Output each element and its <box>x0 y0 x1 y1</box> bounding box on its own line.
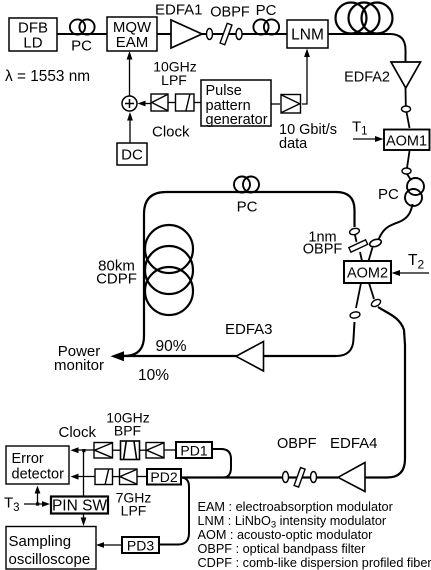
junction dot (clock tap) <box>82 449 85 452</box>
wire from AOM2 output down to EDFA4 line <box>365 307 405 478</box>
scope Sampling oscilloscope <box>6 527 96 570</box>
svg-text:oscilloscope: oscilloscope <box>9 551 91 568</box>
row2 arrow into error detector <box>71 474 96 480</box>
svg-text:EDFA3: EDFA3 <box>225 321 273 338</box>
svg-text:PD3: PD3 <box>127 538 154 554</box>
amplifier EDFA4 (left) <box>338 463 365 492</box>
arrow up to error detector <box>35 486 41 505</box>
wire <box>355 235 357 242</box>
arrow T2 to AOM2 <box>392 270 430 276</box>
adder circle-plus <box>122 96 137 111</box>
filter 10GHz BPF box <box>121 441 140 460</box>
wire PPG to driver <box>271 103 280 105</box>
wire: EDFA2 to AOM1 <box>405 88 407 106</box>
svg-text:PD2: PD2 <box>150 469 177 485</box>
label 10GHz LPF <box>153 59 197 89</box>
modulator LNM <box>287 20 328 48</box>
photodiode PD2 <box>147 469 181 485</box>
loop left wire <box>143 214 145 336</box>
polarization controller PC (before LNM) <box>253 19 279 34</box>
arrow PD3 to oscilloscope <box>96 542 122 548</box>
amplifier EDFA3 (left) <box>236 342 264 372</box>
svg-text:BPF: BPF <box>114 423 141 439</box>
connector ellipse <box>311 472 317 483</box>
svg-text:90%: 90% <box>156 338 187 355</box>
svg-text:Clock: Clock <box>59 424 97 441</box>
svg-text:Sampling: Sampling <box>9 533 72 550</box>
wire to PD1 <box>164 449 176 451</box>
label Power monitor <box>54 343 104 374</box>
svg-text:CDPF : comb-like dispersion pr: CDPF : comb-like dispersion profiled fib… <box>198 556 431 570</box>
connector ellipse <box>236 29 242 40</box>
clock path: mixer to adder arrow <box>138 101 152 107</box>
connector ellipse <box>402 106 411 112</box>
amp box row1 (left triangle) <box>94 443 113 459</box>
svg-text:DC: DC <box>121 147 143 164</box>
polarization controller PC (after DFB) <box>70 19 95 34</box>
connector ellipse <box>349 311 360 319</box>
wire clock down to PIN SW <box>83 450 85 497</box>
loop corner bottom-left (90/10 coupler) <box>124 336 144 356</box>
svg-text:LPF: LPF <box>161 72 187 88</box>
amplifier EDFA2 (down) <box>391 62 421 88</box>
svg-text:PIN SW: PIN SW <box>52 498 107 515</box>
amp box row2 (left triangle) <box>120 469 138 485</box>
amplifier EDFA1 <box>171 20 202 48</box>
modulator AOM1 <box>384 130 430 151</box>
label 7GHz LPF <box>116 490 152 519</box>
svg-text:data: data <box>279 136 308 152</box>
filter OBPF slab <box>220 23 232 44</box>
detector Error detector box <box>6 446 69 484</box>
photodiode PD3 <box>122 537 159 554</box>
svg-text:10%: 10% <box>138 367 169 384</box>
wire below AOM1 <box>407 151 410 168</box>
wire T3 to PIN SW with arrow <box>24 501 50 507</box>
switch PIN SW <box>51 497 108 515</box>
svg-text:generator: generator <box>206 112 268 128</box>
connector ellipse <box>283 472 289 483</box>
svg-text:EDFA4: EDFA4 <box>330 435 378 452</box>
wire loop top-right corner down to OBPF <box>336 192 355 227</box>
source DC box <box>117 143 147 165</box>
connector ellipse <box>370 298 382 308</box>
svg-text:OBPF: OBPF <box>303 242 343 258</box>
svg-text:LPF: LPF <box>121 503 147 519</box>
label 10GHz BPF <box>106 410 150 439</box>
svg-text:PC: PC <box>71 38 92 55</box>
svg-text:EAM: EAM <box>116 34 149 51</box>
wire BPF to amp2 <box>140 449 147 451</box>
svg-text:detector: detector <box>12 467 65 483</box>
modulator AOM2 <box>344 261 391 283</box>
fiber coil 80km CDPF <box>145 225 193 315</box>
loop corner bottom-right going up <box>336 322 355 356</box>
svg-text:PC: PC <box>256 2 277 19</box>
filter 10GHz LPF box <box>176 94 195 111</box>
wire AOM2 bottom-right to ellipse <box>369 283 374 299</box>
branch wire to PD3 <box>159 478 189 545</box>
wire: DFB LD to MQW EAM <box>57 33 107 35</box>
wire: MQW EAM to LNM main line <box>157 33 287 35</box>
wire LPF2 to amp3 <box>113 476 120 478</box>
wire to PD2 <box>137 476 147 478</box>
polarization controller PC (vertical pair) <box>405 178 424 206</box>
svg-text:LNM: LNM <box>291 27 324 44</box>
wire amp to LPF <box>168 102 176 104</box>
polarization controller PC (loop top) <box>234 177 259 193</box>
arrow PIN SW to sampling oscilloscope <box>81 514 87 527</box>
svg-text:CDPF: CDPF <box>96 271 137 288</box>
branch wire to PD1 <box>212 449 231 478</box>
amp box row1 second (left triangle) <box>146 443 164 459</box>
filter OBPF slab (detection) <box>294 468 305 487</box>
svg-text:AOM1: AOM1 <box>386 134 427 150</box>
row1 arrow into error detector <box>71 447 95 453</box>
svg-text:AOM : acousto-optic modulator: AOM : acousto-optic modulator <box>198 528 374 542</box>
junction dot <box>36 502 39 505</box>
svg-text:OBPF: OBPF <box>277 436 317 452</box>
svg-text:Error: Error <box>12 451 44 467</box>
loop bottom wire <box>115 355 336 357</box>
wire: LNM to fiber coil and down to EDFA2 <box>328 34 406 63</box>
fiber coil (3 loops) <box>336 3 393 34</box>
laser DFB LD <box>9 18 57 52</box>
connector ellipse <box>207 29 213 40</box>
svg-text:EDFA1: EDFA1 <box>155 2 203 19</box>
svg-text:PC: PC <box>237 199 258 216</box>
wire into AOM2 top-left <box>360 252 362 261</box>
svg-text:monitor: monitor <box>54 357 104 374</box>
arrow T1 to AOM1 <box>353 136 384 142</box>
svg-text:Clock: Clock <box>152 124 190 141</box>
svg-text:OBPF: OBPF <box>210 5 250 21</box>
svg-text:λ = 1553 nm: λ = 1553 nm <box>5 68 90 85</box>
photodiode PD1 <box>176 442 212 459</box>
svg-text:AOM2: AOM2 <box>347 266 388 282</box>
wire ellipse to AOM2 bottom-left <box>356 283 361 308</box>
svg-text:LD: LD <box>23 35 42 52</box>
generator Pulse pattern generator <box>201 80 271 128</box>
loop corner top-left <box>144 192 166 214</box>
connector ellipse <box>369 238 383 248</box>
modulator MQW EAM <box>107 17 157 51</box>
arrow to power monitor <box>111 351 125 361</box>
svg-text:EDFA2: EDFA2 <box>344 70 390 86</box>
detection main wire PD2 to EDFA4 <box>181 476 338 478</box>
wire amp1 to BPF <box>113 449 121 451</box>
wire LPF to PPG <box>194 102 201 104</box>
connector ellipse <box>349 227 360 235</box>
wire <box>407 112 410 128</box>
filter 7GHz LPF box <box>95 469 113 485</box>
svg-text:OBPF : optical bandpass filter: OBPF : optical bandpass filter <box>198 542 367 556</box>
amplifier box (clock, left triangle) <box>151 94 168 111</box>
filter 1nm OBPF slab <box>349 240 368 252</box>
wire into AOM2 top right <box>369 248 373 262</box>
driver amp box <box>281 95 301 114</box>
arrow DC to adder <box>127 112 133 143</box>
svg-text:PD1: PD1 <box>180 443 207 459</box>
recirculating loop top wire <box>166 191 336 193</box>
wire <box>407 174 411 180</box>
svg-text:PC: PC <box>378 186 399 203</box>
wire S-curve from PC down to AOM2 input ellipse <box>379 204 413 240</box>
connector ellipse <box>402 168 411 174</box>
svg-text:Pulse: Pulse <box>206 83 242 99</box>
arrow adder to MQW EAM <box>127 51 133 96</box>
wire driver to LNM with up arrow <box>302 49 310 105</box>
svg-text:EAM : electroabsorption modula: EAM : electroabsorption modulator <box>198 500 394 514</box>
